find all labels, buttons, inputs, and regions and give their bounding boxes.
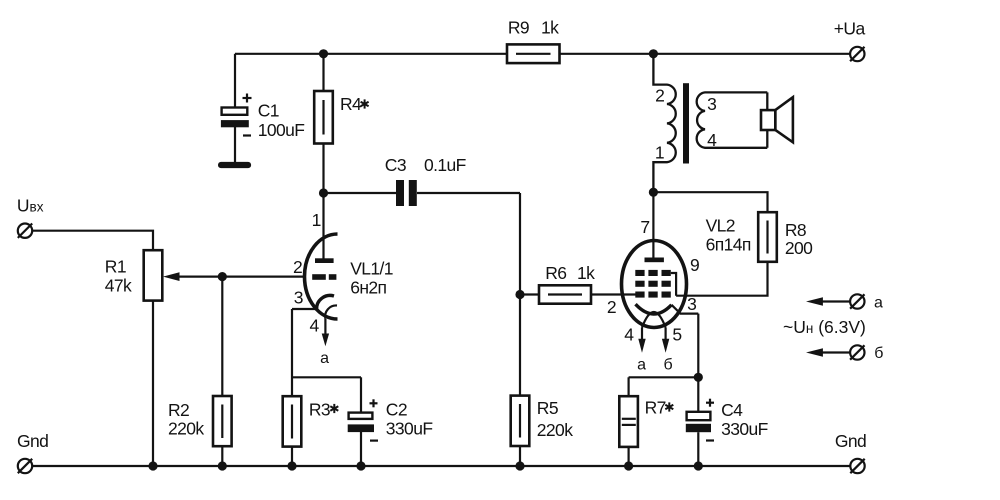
svg-text:6п14п: 6п14п — [706, 235, 751, 255]
svg-text:C1: C1 — [258, 100, 279, 120]
svg-text:C4: C4 — [721, 400, 743, 420]
svg-text:Gnd: Gnd — [835, 431, 866, 451]
svg-text:Gnd: Gnd — [17, 431, 48, 451]
svg-text:3: 3 — [687, 294, 697, 314]
svg-text:C3: C3 — [385, 155, 406, 175]
svg-text:6н2п: 6н2п — [350, 278, 386, 298]
svg-text:4: 4 — [310, 316, 320, 336]
svg-text:а: а — [874, 294, 883, 311]
svg-text:330uF: 330uF — [721, 419, 768, 439]
svg-text:R2: R2 — [168, 400, 189, 420]
svg-text:б: б — [874, 345, 883, 362]
svg-text:R9: R9 — [508, 17, 529, 37]
svg-text:3: 3 — [294, 287, 304, 307]
svg-text:R3: R3 — [309, 400, 330, 420]
svg-text:R5: R5 — [537, 398, 558, 418]
svg-text:б: б — [664, 356, 673, 373]
svg-text:R8: R8 — [785, 220, 806, 240]
svg-text:+Ua: +Ua — [834, 19, 866, 39]
svg-text:VL1/1: VL1/1 — [350, 259, 393, 279]
svg-text:1k: 1k — [577, 263, 595, 283]
svg-text:9: 9 — [690, 255, 700, 275]
svg-text:4: 4 — [624, 325, 634, 345]
svg-text:2: 2 — [293, 257, 303, 277]
svg-text:5: 5 — [672, 325, 682, 345]
svg-text:4: 4 — [707, 130, 717, 150]
svg-text:200: 200 — [785, 238, 813, 258]
svg-text:330uF: 330uF — [386, 418, 433, 438]
svg-text:47k: 47k — [105, 276, 132, 296]
svg-text:а: а — [637, 356, 646, 373]
svg-text:a: a — [320, 350, 329, 367]
svg-text:R7: R7 — [645, 398, 666, 418]
svg-text:~Uн (6.3V): ~Uн (6.3V) — [783, 317, 866, 337]
svg-text:2: 2 — [607, 297, 617, 317]
svg-text:220k: 220k — [537, 420, 573, 440]
svg-text:Uвх: Uвх — [17, 195, 44, 215]
svg-text:220k: 220k — [168, 419, 204, 439]
svg-text:1: 1 — [655, 143, 665, 163]
svg-text:R4: R4 — [340, 94, 362, 114]
svg-text:1k: 1k — [541, 17, 559, 37]
svg-text:3: 3 — [707, 94, 717, 114]
svg-text:1: 1 — [312, 210, 322, 230]
svg-text:100uF: 100uF — [258, 120, 305, 140]
svg-text:0.1uF: 0.1uF — [424, 155, 466, 175]
svg-text:C2: C2 — [386, 400, 407, 420]
svg-text:7: 7 — [640, 217, 650, 237]
svg-text:R6: R6 — [545, 263, 566, 283]
svg-text:VL2: VL2 — [706, 215, 735, 235]
svg-text:R1: R1 — [105, 256, 126, 276]
svg-text:2: 2 — [655, 86, 665, 106]
